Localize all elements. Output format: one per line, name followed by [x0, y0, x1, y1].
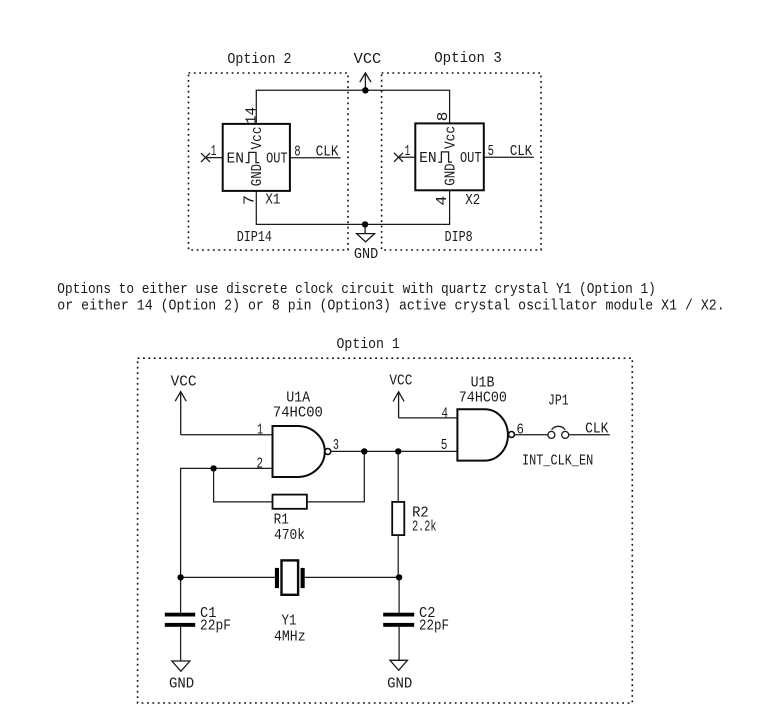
svg-text:VCC: VCC: [171, 374, 197, 390]
svg-text:22pF: 22pF: [419, 619, 449, 635]
svg-text:8: 8: [294, 145, 300, 161]
R2 value 2.2k: [412, 520, 436, 536]
svg-text:JP1: JP1: [548, 393, 569, 409]
svg-text:EN: EN: [227, 152, 245, 168]
svg-text:X1: X1: [265, 192, 280, 208]
U1B pin 4 label: [442, 407, 449, 423]
resistor R1: [273, 495, 307, 509]
capacitor C1: [165, 613, 195, 627]
wire crystal row right: [305, 576, 399, 578]
X1 pin EN text: [227, 152, 245, 168]
U1A reference label: [286, 391, 310, 407]
svg-text:5: 5: [441, 438, 448, 454]
junction output/R1: [361, 448, 367, 454]
wire U1A output to U1B pin 5: [331, 450, 458, 452]
option 2 dashed box: [189, 73, 349, 250]
svg-text:6: 6: [517, 422, 524, 438]
junction C1/crystal: [177, 574, 183, 580]
svg-text:4: 4: [435, 196, 451, 206]
GND power symbol (top section): [354, 224, 378, 263]
svg-text:Option 3: Option 3: [434, 51, 502, 67]
oscillator module X2 body: [415, 123, 484, 190]
option 1 dashed box: [138, 358, 633, 703]
junction on GND rail: [362, 221, 368, 227]
svg-text:U1B: U1B: [471, 376, 495, 392]
svg-text:CLK: CLK: [585, 422, 609, 438]
wire U1A pin 2: [181, 468, 273, 612]
wire C2 top leg: [398, 577, 400, 612]
Y1 value 4MHz: [274, 629, 306, 645]
X1 pin 1 label: [211, 144, 217, 160]
svg-text:1: 1: [257, 422, 263, 438]
X1 pulse waveform glyph: [246, 152, 260, 162]
svg-text:Vcc: Vcc: [250, 127, 266, 150]
svg-text:VCC: VCC: [354, 52, 382, 68]
svg-text:7: 7: [243, 195, 259, 205]
svg-text:INT_CLK_EN: INT_CLK_EN: [522, 454, 593, 470]
svg-text:Vcc: Vcc: [443, 126, 459, 149]
svg-text:GND: GND: [387, 677, 412, 693]
junction output/R2: [395, 448, 401, 454]
option 1 title: [337, 337, 400, 353]
U1B pin 6 label: [517, 422, 524, 438]
wire JP1 to CLK: [569, 434, 610, 436]
option 3 dashed box: [382, 73, 541, 250]
X1 pin OUT text: [266, 152, 288, 168]
svg-text:Options to either use discrete: Options to either use discrete clock cir…: [57, 282, 656, 298]
X2 reference label: [465, 193, 480, 209]
X2 pin 5 stub wire: [484, 156, 534, 158]
X1 pin 8 stub wire: [290, 157, 341, 159]
svg-text:8: 8: [436, 112, 452, 122]
wire VCC top rail: [256, 90, 449, 124]
op-amp U1B nand gate: [457, 409, 514, 460]
svg-text:GND: GND: [250, 164, 266, 186]
X1 Vcc pin text (rotated): [250, 127, 266, 150]
svg-text:470k: 470k: [274, 528, 305, 544]
svg-text:GND: GND: [354, 247, 378, 263]
oscillator module X1 body: [223, 124, 290, 191]
svg-text:GND: GND: [443, 163, 459, 185]
svg-text:DIP8: DIP8: [445, 230, 473, 246]
X2 pin 1 label: [405, 144, 411, 160]
VCC power symbol (top): [354, 52, 382, 90]
C2 reference label: [419, 606, 436, 622]
X2 GND pin text (rotated): [443, 163, 459, 185]
Y1 reference label: [282, 614, 297, 630]
X2 pin 4 number (rotated): [435, 196, 451, 206]
U1A pin 2 label: [257, 456, 264, 472]
svg-text:74HC00: 74HC00: [459, 391, 507, 407]
X2 pin 8 number (rotated): [436, 112, 452, 122]
ground symbol (C1): [169, 661, 194, 693]
svg-text:2: 2: [257, 456, 264, 472]
svg-text:14: 14: [244, 107, 260, 124]
U1A pin 3 label: [333, 438, 339, 454]
U1B pin 5 label: [441, 438, 448, 454]
C1 reference label: [200, 606, 217, 622]
svg-text:22pF: 22pF: [200, 619, 231, 635]
X2 pulse waveform glyph: [438, 152, 452, 162]
svg-text:X2: X2: [465, 193, 480, 209]
wire R1 right leg: [307, 451, 364, 502]
U1A pin 1 label: [257, 422, 263, 438]
note text line 1: [57, 282, 656, 298]
option 2 title: [227, 52, 291, 68]
note text line 2: [57, 298, 724, 314]
crystal Y1: [275, 560, 305, 594]
wire crystal row left: [181, 576, 275, 578]
svg-text:CLK: CLK: [316, 145, 339, 161]
jumper JP1: [548, 426, 569, 438]
svg-text:4: 4: [442, 407, 449, 423]
wire C1 bottom leg: [180, 627, 182, 661]
X1 GND pin text (rotated): [250, 164, 266, 186]
svg-text:Y1: Y1: [282, 614, 297, 630]
R2 reference label: [412, 505, 429, 521]
VCC power symbol (option 1 right): [389, 373, 412, 418]
svg-text:or either 14 (Option 2) or 8 p: or either 14 (Option 2) or 8 pin (Option…: [57, 298, 724, 314]
svg-text:U1A: U1A: [286, 391, 310, 407]
svg-text:GND: GND: [169, 677, 194, 693]
wire U1A pin 1: [181, 434, 273, 436]
C1 value 22pF: [200, 619, 231, 635]
X1 pin 8 label: [294, 145, 300, 161]
U1A value 74HC00: [273, 405, 323, 421]
R1 value 470k: [274, 528, 305, 544]
wire R2 bottom leg: [397, 535, 399, 577]
X1 pin 1 stub wire: [206, 157, 223, 159]
option 3 title: [434, 51, 502, 67]
junction pin2/R1: [210, 465, 216, 471]
svg-text:R1: R1: [274, 513, 289, 529]
wire GND bottom rail: [256, 190, 449, 224]
svg-text:Option 2: Option 2: [227, 52, 291, 68]
op-amp U1A nand gate: [273, 426, 331, 477]
svg-text:OUT: OUT: [266, 152, 288, 168]
X1 reference label: [265, 192, 280, 208]
net label CLK (X2): [510, 144, 533, 160]
wire U1B output to JP1: [515, 434, 548, 436]
JP1 reference label: [548, 393, 569, 409]
X2 pin 5 label: [488, 144, 494, 160]
svg-text:EN: EN: [419, 151, 437, 167]
net label CLK (X1): [316, 145, 339, 161]
junction C2/crystal: [396, 574, 402, 580]
X2 Vcc pin text (rotated): [443, 126, 459, 149]
junction on VCC rail: [362, 87, 368, 93]
net label INT_CLK_EN: [522, 454, 593, 470]
svg-text:74HC00: 74HC00: [273, 405, 323, 421]
net label CLK (output): [585, 422, 609, 438]
VCC power symbol (option 1 left): [171, 374, 197, 434]
svg-text:CLK: CLK: [510, 144, 533, 160]
U1B value 74HC00: [459, 391, 507, 407]
wire R1 left leg: [214, 468, 273, 502]
capacitor C2: [383, 613, 414, 627]
R1 reference label: [274, 513, 289, 529]
X1 pin 7 number (rotated): [243, 195, 259, 205]
svg-text:2.2k: 2.2k: [412, 520, 436, 536]
wire U1B pin 4: [399, 417, 458, 419]
X1 pin 14 number (rotated): [244, 107, 260, 124]
X2 pin 1 no-connect cross: [394, 153, 403, 162]
C2 value 22pF: [419, 619, 449, 635]
svg-text:OUT: OUT: [460, 151, 482, 167]
X2 pin EN text: [419, 151, 437, 167]
X2 DIP8 footprint label: [445, 230, 473, 246]
resistor R2: [392, 502, 404, 535]
svg-text:DIP14: DIP14: [237, 230, 272, 246]
X1 pin 1 no-connect cross: [201, 153, 210, 162]
svg-text:5: 5: [488, 144, 494, 160]
wire R2 top leg: [397, 451, 399, 502]
X2 pin OUT text: [460, 151, 482, 167]
wire C2 bottom leg: [398, 627, 400, 661]
X1 DIP14 footprint label: [237, 230, 272, 246]
U1B reference label: [471, 376, 495, 392]
X2 pin 1 stub wire: [399, 156, 415, 158]
svg-text:VCC: VCC: [389, 373, 412, 389]
svg-text:Option 1: Option 1: [337, 337, 400, 353]
ground symbol (C2): [387, 660, 412, 692]
svg-text:4MHz: 4MHz: [274, 629, 306, 645]
